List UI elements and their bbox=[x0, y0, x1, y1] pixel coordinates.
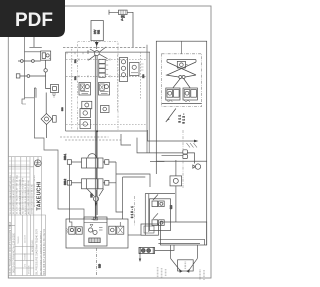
svg-text:01.3.21 CHG VALVE RELIEF SET 2: 01.3.21 CHG VALVE RELIEF SET 21 Mpa bbox=[16, 174, 19, 214]
swivel joint SW1 bbox=[67, 131, 116, 168]
page border frame bbox=[8, 6, 211, 278]
crossover lines X bbox=[167, 60, 196, 75]
arrow head right on wire bbox=[194, 140, 198, 143]
wire to D-box bbox=[175, 160, 177, 222]
pilot valve center of X bbox=[177, 61, 187, 68]
svg-text:310: 310 bbox=[99, 263, 102, 268]
coupler Q1 bbox=[18, 60, 41, 63]
twin pressure lines bbox=[95, 56, 97, 219]
drain hatch marks bbox=[187, 143, 198, 148]
big lower-right box bbox=[161, 222, 207, 245]
travel valve TV1 bbox=[166, 88, 180, 102]
svg-text:PDF: PDF bbox=[15, 10, 53, 31]
label group right of tank bbox=[199, 270, 205, 280]
logo circle bbox=[34, 160, 41, 167]
svg-text:NONE: NONE bbox=[25, 253, 27, 260]
elbow wires to right section bbox=[121, 130, 194, 153]
svg-text:3 1 1: 3 1 1 bbox=[179, 115, 182, 123]
inner box bottom right section bbox=[162, 154, 184, 156]
mini valve R1 bbox=[109, 226, 116, 234]
base rail under valves bbox=[162, 103, 202, 105]
dash-dot label line center bbox=[134, 196, 136, 226]
solenoid valve VB bbox=[99, 83, 110, 96]
svg-text:TB1140: TB1140 bbox=[18, 236, 20, 244]
arrow on M1 bbox=[95, 203, 97, 207]
cluster feed wires bbox=[145, 194, 175, 236]
gyro motor M1 bbox=[93, 190, 98, 208]
dash-dot drop right bbox=[182, 130, 184, 188]
svg-text:119-103: 119-103 bbox=[25, 234, 27, 243]
travel valve TV2 bbox=[183, 88, 197, 102]
main block outline (dash-dot) bbox=[63, 45, 150, 153]
mini valve R2 bbox=[117, 226, 124, 234]
return wires right bbox=[158, 239, 204, 245]
valve V1 (upper-left block) bbox=[25, 37, 51, 61]
right frame extension down bbox=[206, 161, 208, 245]
funnel under SW2 bbox=[87, 189, 104, 196]
wire to accumulator A1 bbox=[46, 76, 51, 89]
svg-text:98.10.05: 98.10.05 bbox=[29, 265, 31, 274]
return arrow left bbox=[171, 258, 182, 271]
title block bbox=[8, 157, 45, 276]
junction box JB1 bbox=[141, 224, 158, 235]
junction star J1 bbox=[87, 47, 107, 60]
left swivel drop wire bbox=[69, 162, 122, 219]
prop valve cluster box bbox=[150, 199, 171, 231]
svg-text:4 03.5.12 3 02.9.30 2 01.3.2: 4 03.5.12 3 02.9.30 2 01.3.21 1 0 bbox=[25, 183, 27, 214]
wire pair mid-left bbox=[34, 88, 36, 98]
svg-text:03.5.12 DWG CHANGED PART NO 11: 03.5.12 DWG CHANGED PART NO 119-4 bbox=[9, 174, 12, 214]
pump circles center manifold bbox=[89, 220, 103, 235]
svg-text:00.8.04 CHG PUMP ASSY P3 118-0: 00.8.04 CHG PUMP ASSY P3 118-05 bbox=[18, 179, 21, 214]
pressure sensor PS1 bbox=[193, 164, 201, 169]
svg-text:NO PART NAME QTY MATERIAL REMA: NO PART NAME QTY MATERIAL REMARKS A bbox=[40, 231, 43, 275]
svg-text:NO DATE REVISED RECORD BY APP: NO DATE REVISED RECORD BY APP bbox=[21, 177, 24, 214]
svg-text:APPROVED: APPROVED bbox=[31, 239, 34, 252]
gauge G1 bbox=[44, 60, 47, 76]
check valve D1 (diamond) bbox=[41, 93, 56, 139]
pilot box P1 with vertical text bbox=[91, 21, 103, 41]
valve stack S1 bbox=[99, 59, 108, 77]
svg-text:B6100-05 DRAWING No 119-10300: B6100-05 DRAWING No 119-10300 bbox=[13, 233, 16, 273]
relief valve RC bbox=[130, 63, 144, 76]
swivel joint SW2 bbox=[67, 168, 116, 189]
shuttle circles bbox=[166, 75, 196, 88]
svg-text:302: 302 bbox=[98, 29, 101, 34]
return arrow right bbox=[188, 258, 197, 271]
right tall frame bbox=[156, 41, 206, 161]
suction dash line to tank bbox=[96, 248, 98, 276]
mini valve L1 bbox=[67, 219, 121, 234]
filter hatched bar bbox=[89, 238, 100, 243]
svg-text:309: 309 bbox=[91, 193, 94, 198]
gear pump GP1 bbox=[139, 247, 155, 253]
feed line top bbox=[181, 41, 183, 54]
svg-text:1998.10.05 1998.10.02 98.9.3: 1998.10.05 1998.10.02 98.9.30 bbox=[32, 184, 34, 214]
accumulator AC2 bbox=[183, 150, 188, 159]
svg-text:APPD CHKD DESD DRWN T.S K.M: APPD CHKD DESD DRWN T.S K.M bbox=[27, 180, 30, 214]
solenoid valve VA bbox=[79, 83, 91, 96]
breather B1 top bbox=[109, 10, 133, 48]
svg-text:3 1 5 - 1: 3 1 5 - 1 bbox=[132, 206, 134, 218]
mini valve L2 bbox=[76, 227, 82, 234]
svg-text:TAKEUCHI: TAKEUCHI bbox=[37, 181, 43, 210]
valve VC bbox=[82, 101, 92, 109]
accumulator A1 (box with square) bbox=[51, 85, 59, 98]
solenoid box SD1 bbox=[170, 176, 182, 186]
svg-text:3 1 2 -: 3 1 2 - bbox=[183, 113, 186, 123]
PDF badge bbox=[0, 0, 65, 37]
label group bottom-left of tank bbox=[157, 268, 167, 279]
revision tiny text bbox=[9, 174, 34, 214]
manifold outer box bbox=[66, 219, 128, 248]
node stub left bbox=[22, 103, 26, 105]
svg-text:02.9.30 ADD HOSE ASSY 305 1 2: 02.9.30 ADD HOSE ASSY 305 1 2 3 44 bbox=[12, 177, 15, 214]
svg-text:308-2: 308-2 bbox=[64, 178, 67, 185]
valve VE small bbox=[101, 106, 110, 113]
wire from top border down left side bbox=[22, 6, 25, 104]
wire AC2 to sensor bbox=[187, 153, 194, 164]
pump outlet wire bbox=[155, 245, 175, 251]
svg-text:P/V: P/V bbox=[93, 30, 97, 34]
tank return drops bbox=[171, 245, 198, 258]
wire M1 to manifold bbox=[95, 208, 97, 219]
tank T1 bbox=[178, 260, 194, 271]
lever arrow bbox=[166, 109, 176, 123]
internal dashed rails bbox=[66, 42, 146, 131]
rail tick marks and small labels bbox=[67, 52, 110, 77]
svg-text:305-1 306 307-2 308 309 310 31: 305-1 306 307-2 308 309 310 311 312 31 bbox=[43, 228, 46, 275]
lower title text bbox=[9, 221, 46, 275]
svg-text:OIL PRESSURE DIAGRAM TB1140 SE: OIL PRESSURE DIAGRAM TB1140 SER bbox=[35, 229, 38, 275]
arrow from P1 down bbox=[96, 41, 98, 49]
bottom-left line of right frame bbox=[150, 161, 164, 163]
wire down-left mid bbox=[25, 98, 85, 219]
block bottom rails bbox=[60, 137, 121, 140]
svg-text:308-1: 308-1 bbox=[64, 153, 67, 160]
valve VD stack bbox=[80, 109, 91, 129]
coupler Q2 bbox=[16, 74, 45, 78]
prop valve PV1 bbox=[152, 195, 164, 207]
manifold inner box bbox=[84, 217, 107, 246]
drain arrow left bbox=[139, 253, 141, 261]
inner dash-dot box right bbox=[162, 54, 202, 107]
solenoid tower TC bbox=[120, 58, 128, 82]
prop valve PV2 bbox=[152, 213, 164, 225]
revision rows bbox=[8, 161, 34, 209]
